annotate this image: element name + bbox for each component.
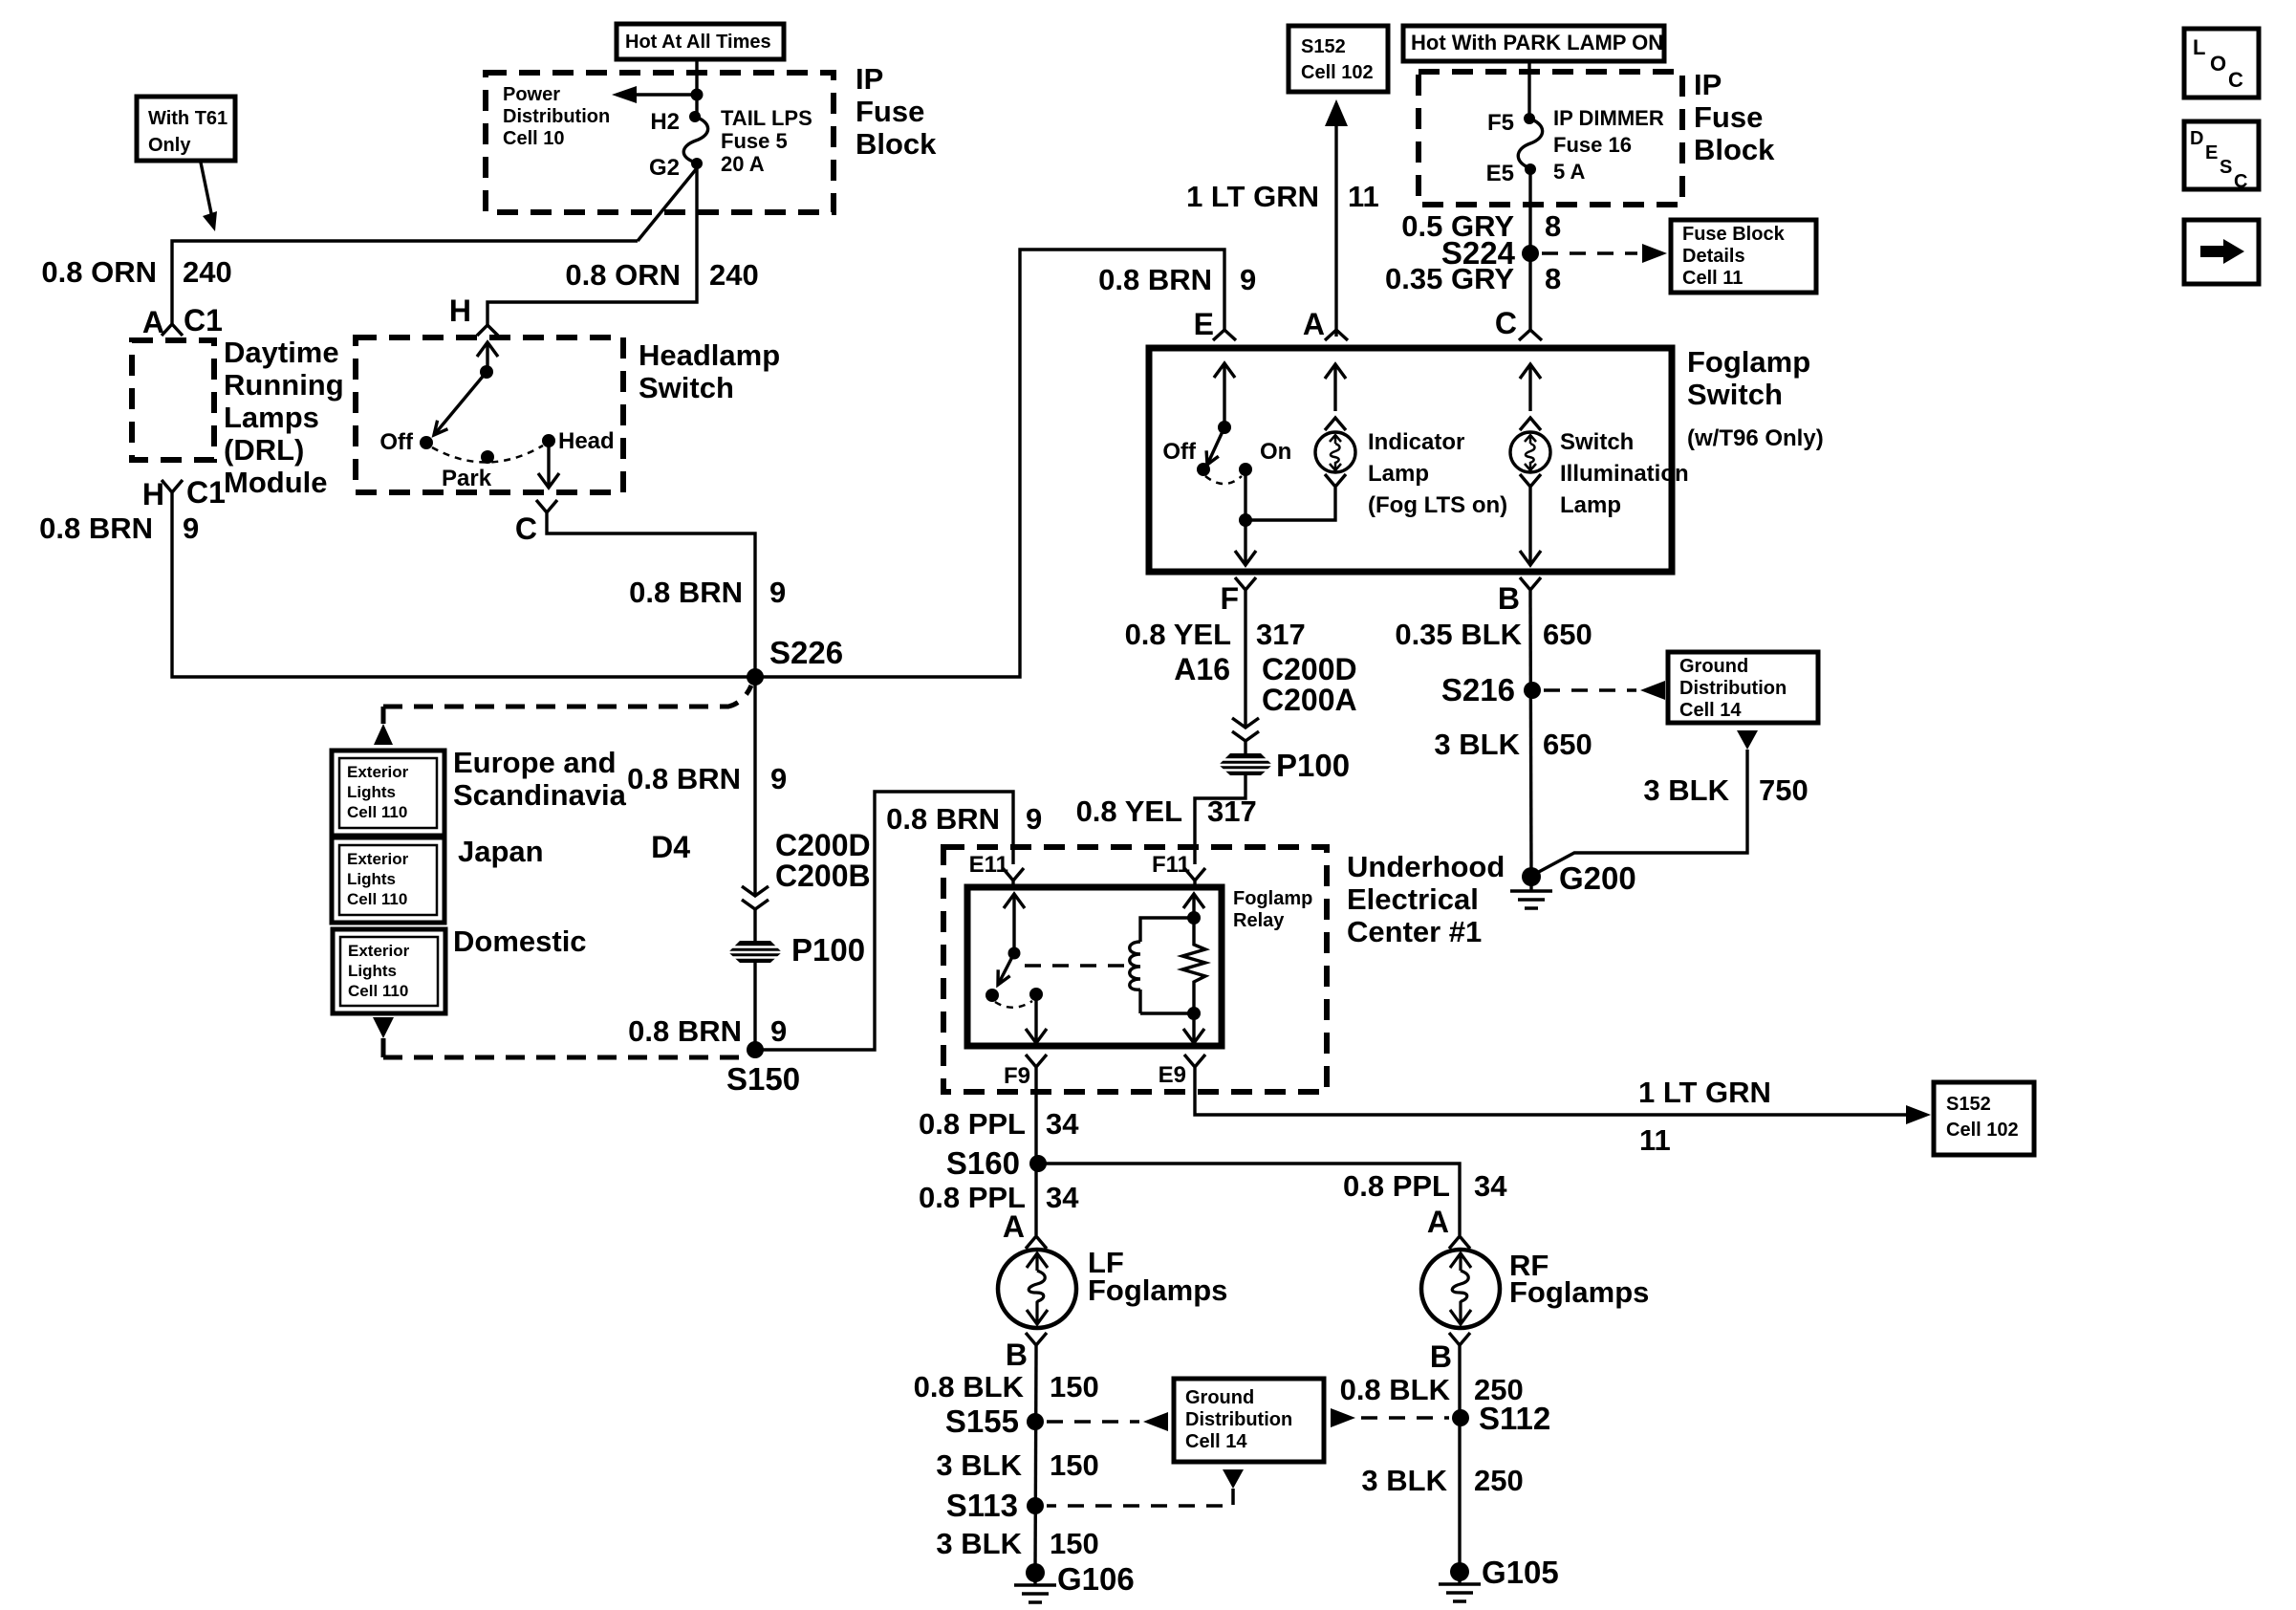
svg-text:E11: E11 (969, 852, 1008, 878)
svg-text:Switch: Switch (1560, 429, 1634, 455)
svg-text:Electrical: Electrical (1347, 882, 1479, 916)
svg-text:250: 250 (1474, 1464, 1524, 1497)
svg-text:9: 9 (1240, 263, 1256, 296)
label RF Foglamps (1509, 1249, 1649, 1309)
svg-text:Headlamp: Headlamp (639, 338, 780, 372)
svg-text:150: 150 (1050, 1527, 1099, 1560)
label Europe and Scandinavia (453, 746, 627, 812)
wire G2 diagonal to DRL feed (638, 168, 697, 241)
svg-text:0.8 BLK: 0.8 BLK (914, 1370, 1025, 1403)
svg-text:240: 240 (183, 255, 232, 289)
foglamp switch blade to Off (1206, 427, 1224, 465)
svg-text:3 BLK: 3 BLK (1361, 1464, 1447, 1497)
svg-text:C1: C1 (184, 303, 223, 337)
label 3 BLK 150 (lower) (936, 1527, 1098, 1560)
label 0.8 BLK 150 (914, 1370, 1099, 1403)
relay arm arrow (1004, 894, 1025, 960)
forward arrow legend box (2184, 220, 2259, 284)
svg-text:L: L (2193, 35, 2205, 59)
svg-text:A: A (142, 305, 164, 339)
headlamp Off contact (379, 429, 433, 455)
wire E5 down to connector C (1528, 169, 1531, 330)
wire S160 down to LF foglamp (1034, 1164, 1037, 1235)
label Indicator Lamp (Fog LTS on) (1368, 429, 1507, 518)
pin E5 (1486, 161, 1536, 186)
label 1 LT GRN 11 (bottom) (1638, 1076, 1771, 1157)
svg-text:5 A: 5 A (1553, 160, 1586, 184)
connector F9 wire down to S160 (1034, 1076, 1037, 1164)
label 0.8 BRN 9 (E wire) (1098, 263, 1256, 296)
exterior lights cell 110 box (Domestic) (333, 929, 445, 1013)
wire On contact down to F with junction (1235, 469, 1256, 565)
svg-text:C200B: C200B (775, 859, 871, 893)
svg-text:Distribution: Distribution (1185, 1409, 1292, 1430)
node S160 (946, 1145, 1047, 1181)
switch illumination connector (1520, 418, 1541, 430)
dashed reference arrow S216 to ground distribution (1544, 681, 1665, 700)
svg-text:Details: Details (1682, 246, 1745, 267)
svg-text:0.8 YEL: 0.8 YEL (1125, 618, 1231, 651)
fuse TAIL LPS Fuse 5 20 A (683, 106, 812, 176)
svg-text:Japan: Japan (458, 835, 544, 868)
node S216 (1441, 672, 1541, 707)
svg-text:Lights: Lights (347, 783, 396, 801)
connector D4 C200D C200B (651, 828, 871, 909)
wire pin A up to S152 (1325, 99, 1348, 337)
svg-text:F9: F9 (1004, 1063, 1030, 1089)
label 3 BLK 250 (1361, 1464, 1523, 1497)
svg-text:Illumination: Illumination (1560, 461, 1689, 487)
connector F9 (1004, 1055, 1047, 1089)
svg-text:D: D (2190, 128, 2203, 149)
svg-text:Europe and: Europe and (453, 746, 617, 779)
svg-text:0.8 BLK: 0.8 BLK (1340, 1373, 1451, 1406)
connector H into headlamp switch (449, 294, 498, 336)
label 1 LT GRN 11 (top) (1186, 180, 1379, 213)
svg-text:S152: S152 (1946, 1094, 1991, 1115)
with T61 only note box (137, 97, 235, 161)
svg-text:Off: Off (1162, 439, 1197, 465)
svg-text:Cell 11: Cell 11 (1682, 268, 1743, 289)
svg-text:Exterior: Exterior (347, 850, 409, 868)
node S113 (946, 1488, 1044, 1523)
switch illumination lamp (1510, 432, 1550, 472)
relay on contact (1029, 988, 1043, 1001)
svg-text:Center #1: Center #1 (1347, 915, 1482, 948)
wire S160 to RF foglamp (1038, 1164, 1460, 1235)
svg-text:P100: P100 (1276, 748, 1350, 783)
svg-text:Fuse: Fuse (856, 95, 924, 128)
dashed reference arrow S155 to ground distribution (1047, 1412, 1168, 1431)
svg-text:Cell 14: Cell 14 (1679, 700, 1742, 721)
wire S226 to foglamp switch pin E (753, 250, 1224, 677)
svg-text:Block: Block (856, 127, 937, 161)
foglamp On contact (1239, 439, 1291, 476)
exterior lights cell 110 box (Europe) (332, 751, 444, 836)
svg-text:0.8 BRN: 0.8 BRN (627, 762, 741, 795)
hot with park lamp on tag box (1403, 26, 1664, 61)
svg-text:Indicator: Indicator (1368, 429, 1464, 455)
svg-text:20 A: 20 A (721, 152, 765, 176)
svg-text:Head: Head (558, 428, 615, 454)
label 0.8 PPL 34 (RF) (1343, 1169, 1507, 1203)
svg-text:1 LT GRN: 1 LT GRN (1638, 1076, 1771, 1109)
wire junction to indicator lamp (1245, 488, 1335, 520)
relay coil (1130, 918, 1194, 1013)
svg-text:0.8 BRN: 0.8 BRN (628, 1014, 742, 1048)
ground G105 (1439, 1555, 1559, 1601)
svg-text:S150: S150 (726, 1061, 800, 1097)
svg-text:E: E (1194, 307, 1214, 341)
svg-text:S160: S160 (946, 1145, 1020, 1181)
svg-text:317: 317 (1207, 794, 1257, 828)
dashed reference link S113 to ground distribution (1047, 1469, 1244, 1506)
svg-text:0.8 BRN: 0.8 BRN (629, 576, 743, 609)
foglamp Off contact (1162, 439, 1210, 476)
svg-text:F5: F5 (1487, 110, 1514, 136)
svg-text:S112: S112 (1479, 1401, 1550, 1436)
connector E11 (969, 852, 1024, 887)
svg-text:Fuse: Fuse (1694, 100, 1763, 134)
label IP Fuse Block (right block) (1694, 68, 1775, 166)
svg-text:9: 9 (183, 511, 199, 545)
RF foglamp lamp (1421, 1250, 1500, 1328)
foglamp switch arm arrow (1214, 363, 1235, 434)
label 0.8 PPL 34 (upper) (919, 1107, 1079, 1141)
svg-text:Cell 102: Cell 102 (1946, 1120, 2019, 1141)
svg-text:Daytime: Daytime (224, 336, 339, 369)
svg-text:34: 34 (1046, 1107, 1079, 1141)
svg-text:C: C (2234, 171, 2247, 192)
svg-text:Foglamp: Foglamp (1687, 345, 1810, 379)
headlamp switch dashed box (356, 337, 623, 492)
underhood electrical center dashed box (943, 847, 1327, 1092)
dashed reference arrow S224 to fuse block details (1542, 244, 1667, 263)
svg-text:3 BLK: 3 BLK (936, 1527, 1022, 1560)
svg-text:Switch: Switch (1687, 378, 1783, 411)
svg-text:Hot With PARK LAMP ON: Hot With PARK LAMP ON (1411, 31, 1663, 54)
svg-text:Foglamps: Foglamps (1088, 1273, 1227, 1307)
svg-text:On: On (1260, 439, 1291, 465)
svg-text:Exterior: Exterior (348, 942, 410, 960)
wire Head down with arrow (538, 446, 559, 488)
label Headlamp Switch (639, 338, 780, 404)
svg-text:Off: Off (379, 429, 414, 455)
label 0.8 YEL 317 (upper) (1125, 618, 1306, 651)
ground distribution cell 14 box (right) (1668, 652, 1818, 723)
node S112 (1452, 1401, 1550, 1436)
svg-text:Block: Block (1694, 133, 1775, 166)
svg-text:Lights: Lights (348, 962, 397, 980)
wire DRL H down to S226 run (172, 501, 753, 677)
connector B RF foglamp (1430, 1333, 1470, 1374)
connector A C1 into DRL module (142, 303, 223, 339)
label 0.5 GRY 8 (1401, 209, 1561, 243)
pin H2 (650, 109, 701, 135)
wire RF B down to G105 (1458, 1353, 1461, 1572)
relay coil bottom wire (1140, 1012, 1194, 1014)
svg-text:Fuse 5: Fuse 5 (721, 129, 788, 153)
svg-text:G2: G2 (649, 155, 680, 181)
svg-text:0.8 ORN: 0.8 ORN (41, 255, 157, 289)
svg-text:11: 11 (1348, 180, 1379, 213)
svg-text:G105: G105 (1482, 1555, 1559, 1590)
svg-text:Cell 110: Cell 110 (348, 982, 408, 1000)
svg-text:C200A: C200A (1262, 683, 1357, 717)
DESC legend box (2184, 121, 2259, 192)
svg-text:(DRL): (DRL) (224, 433, 304, 467)
svg-text:E9: E9 (1159, 1062, 1186, 1088)
svg-text:(w/T96 Only): (w/T96 Only) (1687, 425, 1824, 451)
svg-text:8: 8 (1545, 209, 1561, 243)
dashed arc Off On (1205, 476, 1242, 484)
svg-text:Cell 14: Cell 14 (1185, 1431, 1247, 1452)
label 0.35 BLK 650 (1395, 618, 1592, 651)
connector E9 (1159, 1055, 1205, 1088)
relay switched output arrow F9 (1026, 994, 1047, 1043)
svg-text:Exterior: Exterior (347, 763, 409, 781)
svg-text:Scandinavia: Scandinavia (453, 778, 627, 812)
svg-text:C200D: C200D (775, 828, 871, 862)
svg-text:TAIL LPS: TAIL LPS (721, 106, 812, 130)
svg-text:0.8 BRN: 0.8 BRN (1098, 263, 1212, 296)
dashed market branch top line (383, 685, 751, 707)
connector E into foglamp switch (1194, 307, 1236, 341)
svg-text:650: 650 (1543, 728, 1592, 761)
svg-text:P100: P100 (791, 932, 865, 968)
exterior lights cell 110 box (Japan) (332, 838, 444, 923)
svg-text:Fuse Block: Fuse Block (1682, 224, 1786, 245)
connector H C1 out of DRL module (142, 475, 226, 511)
svg-text:Distribution: Distribution (503, 106, 610, 127)
svg-text:IP: IP (856, 62, 883, 96)
arrow to power distribution (612, 86, 697, 103)
pin F5 (1487, 110, 1535, 136)
svg-text:With T61: With T61 (148, 108, 227, 129)
connector B LF foglamp (1006, 1333, 1047, 1372)
relay output arrow E9 (1183, 1013, 1204, 1043)
node S155 (945, 1403, 1044, 1439)
relay junction top (1187, 911, 1201, 925)
svg-text:Cell 110: Cell 110 (347, 803, 407, 821)
svg-text:750: 750 (1759, 773, 1809, 807)
svg-text:317: 317 (1256, 618, 1306, 651)
svg-text:Cell 110: Cell 110 (347, 890, 407, 908)
svg-text:S216: S216 (1441, 672, 1515, 707)
relay feed arrow F11 (1183, 894, 1204, 918)
relay resistor (1182, 918, 1205, 1013)
headlamp Head contact (542, 428, 615, 454)
svg-text:0.8 BRN: 0.8 BRN (39, 511, 153, 545)
arrow from T61 note to wire (201, 163, 217, 231)
svg-text:S152: S152 (1301, 36, 1346, 57)
connector C out of headlamp switch (515, 500, 557, 546)
svg-text:0.8 YEL: 0.8 YEL (1076, 794, 1182, 828)
svg-text:H2: H2 (650, 109, 680, 135)
svg-text:S113: S113 (946, 1488, 1018, 1523)
label 0.8 ORN 240 (left) (41, 255, 231, 289)
label 0.8 BRN 9 (C wire) (629, 576, 786, 609)
junction on feed wire (691, 89, 704, 101)
svg-text:Switch: Switch (639, 371, 734, 404)
svg-text:A16: A16 (1174, 652, 1230, 686)
headlamp switch blade to Off (434, 372, 487, 435)
svg-text:C200D: C200D (1262, 652, 1357, 686)
svg-text:C1: C1 (186, 475, 226, 510)
svg-text:(Fog LTS on): (Fog LTS on) (1368, 492, 1507, 518)
wire G2 down to headlamp switch (487, 163, 697, 325)
svg-text:S: S (2220, 157, 2232, 178)
wire F down to P100 (1244, 598, 1246, 753)
svg-text:B: B (1430, 1339, 1452, 1374)
svg-text:0.8 PPL: 0.8 PPL (919, 1107, 1026, 1141)
dashed market branch left drop with arrow (374, 707, 393, 745)
connector F under foglamp switch (1220, 577, 1256, 616)
ground G106 (1014, 1561, 1135, 1602)
svg-text:Hot At All Times: Hot At All Times (625, 32, 771, 53)
label Foglamp Relay (1233, 888, 1312, 931)
node S226 (747, 635, 843, 685)
svg-text:A: A (1003, 1209, 1025, 1244)
wire from Hot At All Times into fuse block (695, 59, 698, 119)
svg-text:A: A (1303, 307, 1325, 341)
label 0.35 GRY 8 (1385, 262, 1561, 295)
connector A on foglamp switch (1303, 307, 1348, 341)
svg-text:C: C (515, 511, 537, 546)
svg-text:F: F (1220, 581, 1239, 616)
svg-text:IP: IP (1694, 68, 1722, 101)
svg-text:3 BLK: 3 BLK (1643, 773, 1729, 807)
relay junction bottom (1187, 1007, 1201, 1020)
label 0.8 YEL 317 (lower) (1076, 794, 1257, 828)
svg-text:0.8 PPL: 0.8 PPL (1343, 1169, 1450, 1203)
svg-text:9: 9 (770, 762, 787, 795)
svg-text:0.8 BRN: 0.8 BRN (886, 802, 1000, 836)
dashed market branch bottom line to S150 (383, 1055, 745, 1060)
wire horizontal feed to DRL module (172, 241, 638, 324)
svg-text:Foglamps: Foglamps (1509, 1275, 1649, 1309)
svg-text:E: E (2205, 142, 2218, 163)
svg-text:F11: F11 (1152, 852, 1190, 878)
svg-text:Only: Only (148, 135, 191, 156)
svg-text:34: 34 (1046, 1181, 1079, 1214)
label 3 BLK 650 (1434, 728, 1592, 761)
svg-text:G200: G200 (1559, 860, 1636, 896)
svg-text:9: 9 (770, 1014, 787, 1048)
label 0.8 BRN 9 (S226-P100) (627, 762, 787, 795)
svg-text:150: 150 (1050, 1370, 1099, 1403)
label 0.8 BRN 9 (E11 wire) (886, 802, 1042, 836)
dashed market branch bottom triangle (373, 1017, 394, 1057)
svg-text:Fuse 16: Fuse 16 (1553, 133, 1632, 157)
connector B under foglamp switch (1498, 577, 1541, 616)
wire B down to G200 (1530, 598, 1531, 877)
ground distribution cell 14 box (bottom) (1174, 1379, 1324, 1462)
svg-text:Distribution: Distribution (1679, 678, 1787, 699)
label 0.8 ORN 240 (right) (565, 258, 758, 292)
headlamp switch arm arrow up (477, 342, 498, 379)
svg-text:3 BLK: 3 BLK (1434, 728, 1520, 761)
svg-text:Lamp: Lamp (1560, 492, 1621, 518)
LF foglamp lamp (998, 1250, 1076, 1328)
relay off contact (986, 989, 999, 1002)
svg-text:IP DIMMER: IP DIMMER (1553, 106, 1664, 130)
fuse block details cell 11 box (1671, 220, 1816, 293)
label Foglamp Switch (w/T96 Only) (1687, 345, 1824, 451)
dashed reference arrow ground distribution to S112 (1331, 1408, 1449, 1427)
label LF Foglamps (1088, 1246, 1227, 1307)
wire E9 to S152 (bottom) (1195, 1076, 1931, 1124)
headlamp Park contact (442, 450, 494, 491)
svg-text:B: B (1498, 581, 1520, 616)
label 0.8 BRN 9 (left) (39, 511, 199, 545)
pass-through grommet P100 (brown wire) (726, 932, 865, 968)
svg-text:34: 34 (1474, 1169, 1507, 1203)
svg-text:Module: Module (224, 466, 328, 499)
svg-text:Ground: Ground (1679, 656, 1748, 677)
daytime running lamps DRL module dashed box (132, 340, 214, 460)
svg-text:Relay: Relay (1233, 910, 1285, 931)
wire 3 BLK 750 from ground distribution to G200 (1535, 730, 1758, 874)
svg-text:1 LT GRN: 1 LT GRN (1186, 180, 1319, 213)
svg-text:150: 150 (1050, 1448, 1099, 1482)
svg-text:Running: Running (224, 368, 344, 402)
svg-text:B: B (1006, 1338, 1028, 1372)
label 0.8 PPL 34 (LF) (919, 1181, 1079, 1214)
ground G200 (1510, 860, 1636, 908)
connector F11 (1152, 852, 1205, 887)
svg-text:650: 650 (1543, 618, 1592, 651)
svg-text:240: 240 (709, 258, 759, 292)
relay blade to off contact (998, 953, 1014, 985)
label Power Distribution Cell 10 (503, 84, 610, 149)
svg-text:Power: Power (503, 84, 560, 105)
label Underhood Electrical Center #1 (1347, 850, 1505, 948)
foglamp switch box (1149, 348, 1672, 572)
label 0.8 BRN 9 (P100-S150) (628, 1014, 787, 1048)
svg-text:Lamps: Lamps (224, 401, 319, 434)
svg-text:S155: S155 (945, 1403, 1019, 1439)
wire hot park lamp down to F5 (1527, 61, 1530, 120)
switch illumination bottom connector and wire to B (1520, 474, 1541, 565)
svg-text:Domestic: Domestic (453, 925, 587, 958)
svg-text:3 BLK: 3 BLK (936, 1448, 1022, 1482)
svg-text:Lamp: Lamp (1368, 461, 1429, 487)
svg-text:H: H (142, 477, 164, 511)
svg-text:A: A (1427, 1205, 1449, 1239)
wire C to S226 (547, 521, 755, 677)
svg-text:0.35 GRY: 0.35 GRY (1385, 262, 1514, 295)
S152 Cell 102 reference box (bottom) (1934, 1082, 2034, 1155)
svg-text:Underhood: Underhood (1347, 850, 1505, 883)
dashed arc relay contacts (995, 1001, 1032, 1008)
fuse IP DIMMER Fuse 16 5 A (1518, 106, 1664, 184)
LOC legend box (2184, 29, 2259, 98)
S152 Cell 102 reference box (top) (1289, 26, 1388, 92)
svg-text:E5: E5 (1486, 161, 1514, 186)
svg-text:Cell 102: Cell 102 (1301, 62, 1374, 83)
svg-text:Cell 10: Cell 10 (503, 128, 564, 149)
connector A LF foglamp (1003, 1209, 1047, 1249)
foglamp relay box (967, 887, 1222, 1046)
wire S150 to relay pin E11 (755, 792, 1013, 1050)
svg-text:Ground: Ground (1185, 1387, 1254, 1408)
label Switch Illumination Lamp (1560, 429, 1689, 518)
indicator lamp bottom connector (1325, 474, 1346, 487)
switch illumination feed arrow from pin C (1520, 364, 1541, 411)
pin G2 (649, 155, 703, 181)
label 3 BLK 750 (1643, 773, 1808, 807)
